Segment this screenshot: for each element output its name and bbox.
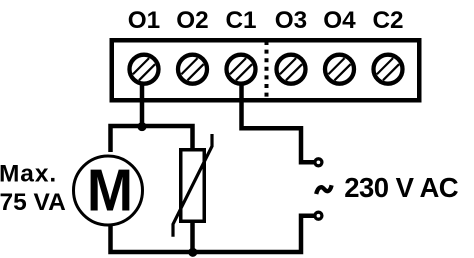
node junction O1/motor/varistor (137, 122, 146, 131)
wire O1 stub to junction (140, 80, 145, 126)
wire horizontal from motor over junction to varistor top (111, 126, 193, 152)
svg-text:C2: C2 (372, 7, 403, 34)
svg-text:75 VA: 75 VA (0, 189, 66, 216)
svg-text:Max.: Max. (0, 161, 57, 188)
AC tilde symbol (316, 185, 331, 194)
dotted separator between C1 and O3 (265, 41, 269, 100)
wire C1 to upper switch contact (242, 80, 315, 162)
varistor R1 diagonal stroke (173, 134, 212, 237)
terminal C2 (374, 55, 403, 84)
svg-text:O3: O3 (275, 7, 307, 34)
lower switch contact (315, 212, 322, 219)
varistor R1 body (181, 150, 205, 222)
terminal O4 (325, 55, 354, 84)
svg-text:M: M (87, 158, 133, 224)
terminal block outline (112, 40, 420, 100)
terminal O1 (130, 55, 159, 84)
motor M1 circle (74, 156, 143, 225)
upper switch contact (315, 159, 322, 166)
terminal O2 (178, 55, 207, 84)
terminal O3 (277, 55, 306, 84)
node junction varistor/rail (188, 248, 197, 257)
svg-text:O1: O1 (128, 7, 160, 34)
svg-text:230 V AC: 230 V AC (344, 172, 458, 203)
svg-text:O2: O2 (176, 7, 208, 34)
svg-text:O4: O4 (323, 7, 356, 34)
terminal C1 (227, 55, 256, 84)
wire varistor bottom to rail (190, 220, 195, 252)
wire motor bottom, bottom rail, to lower switch contact (111, 216, 315, 252)
svg-text:C1: C1 (225, 7, 256, 34)
